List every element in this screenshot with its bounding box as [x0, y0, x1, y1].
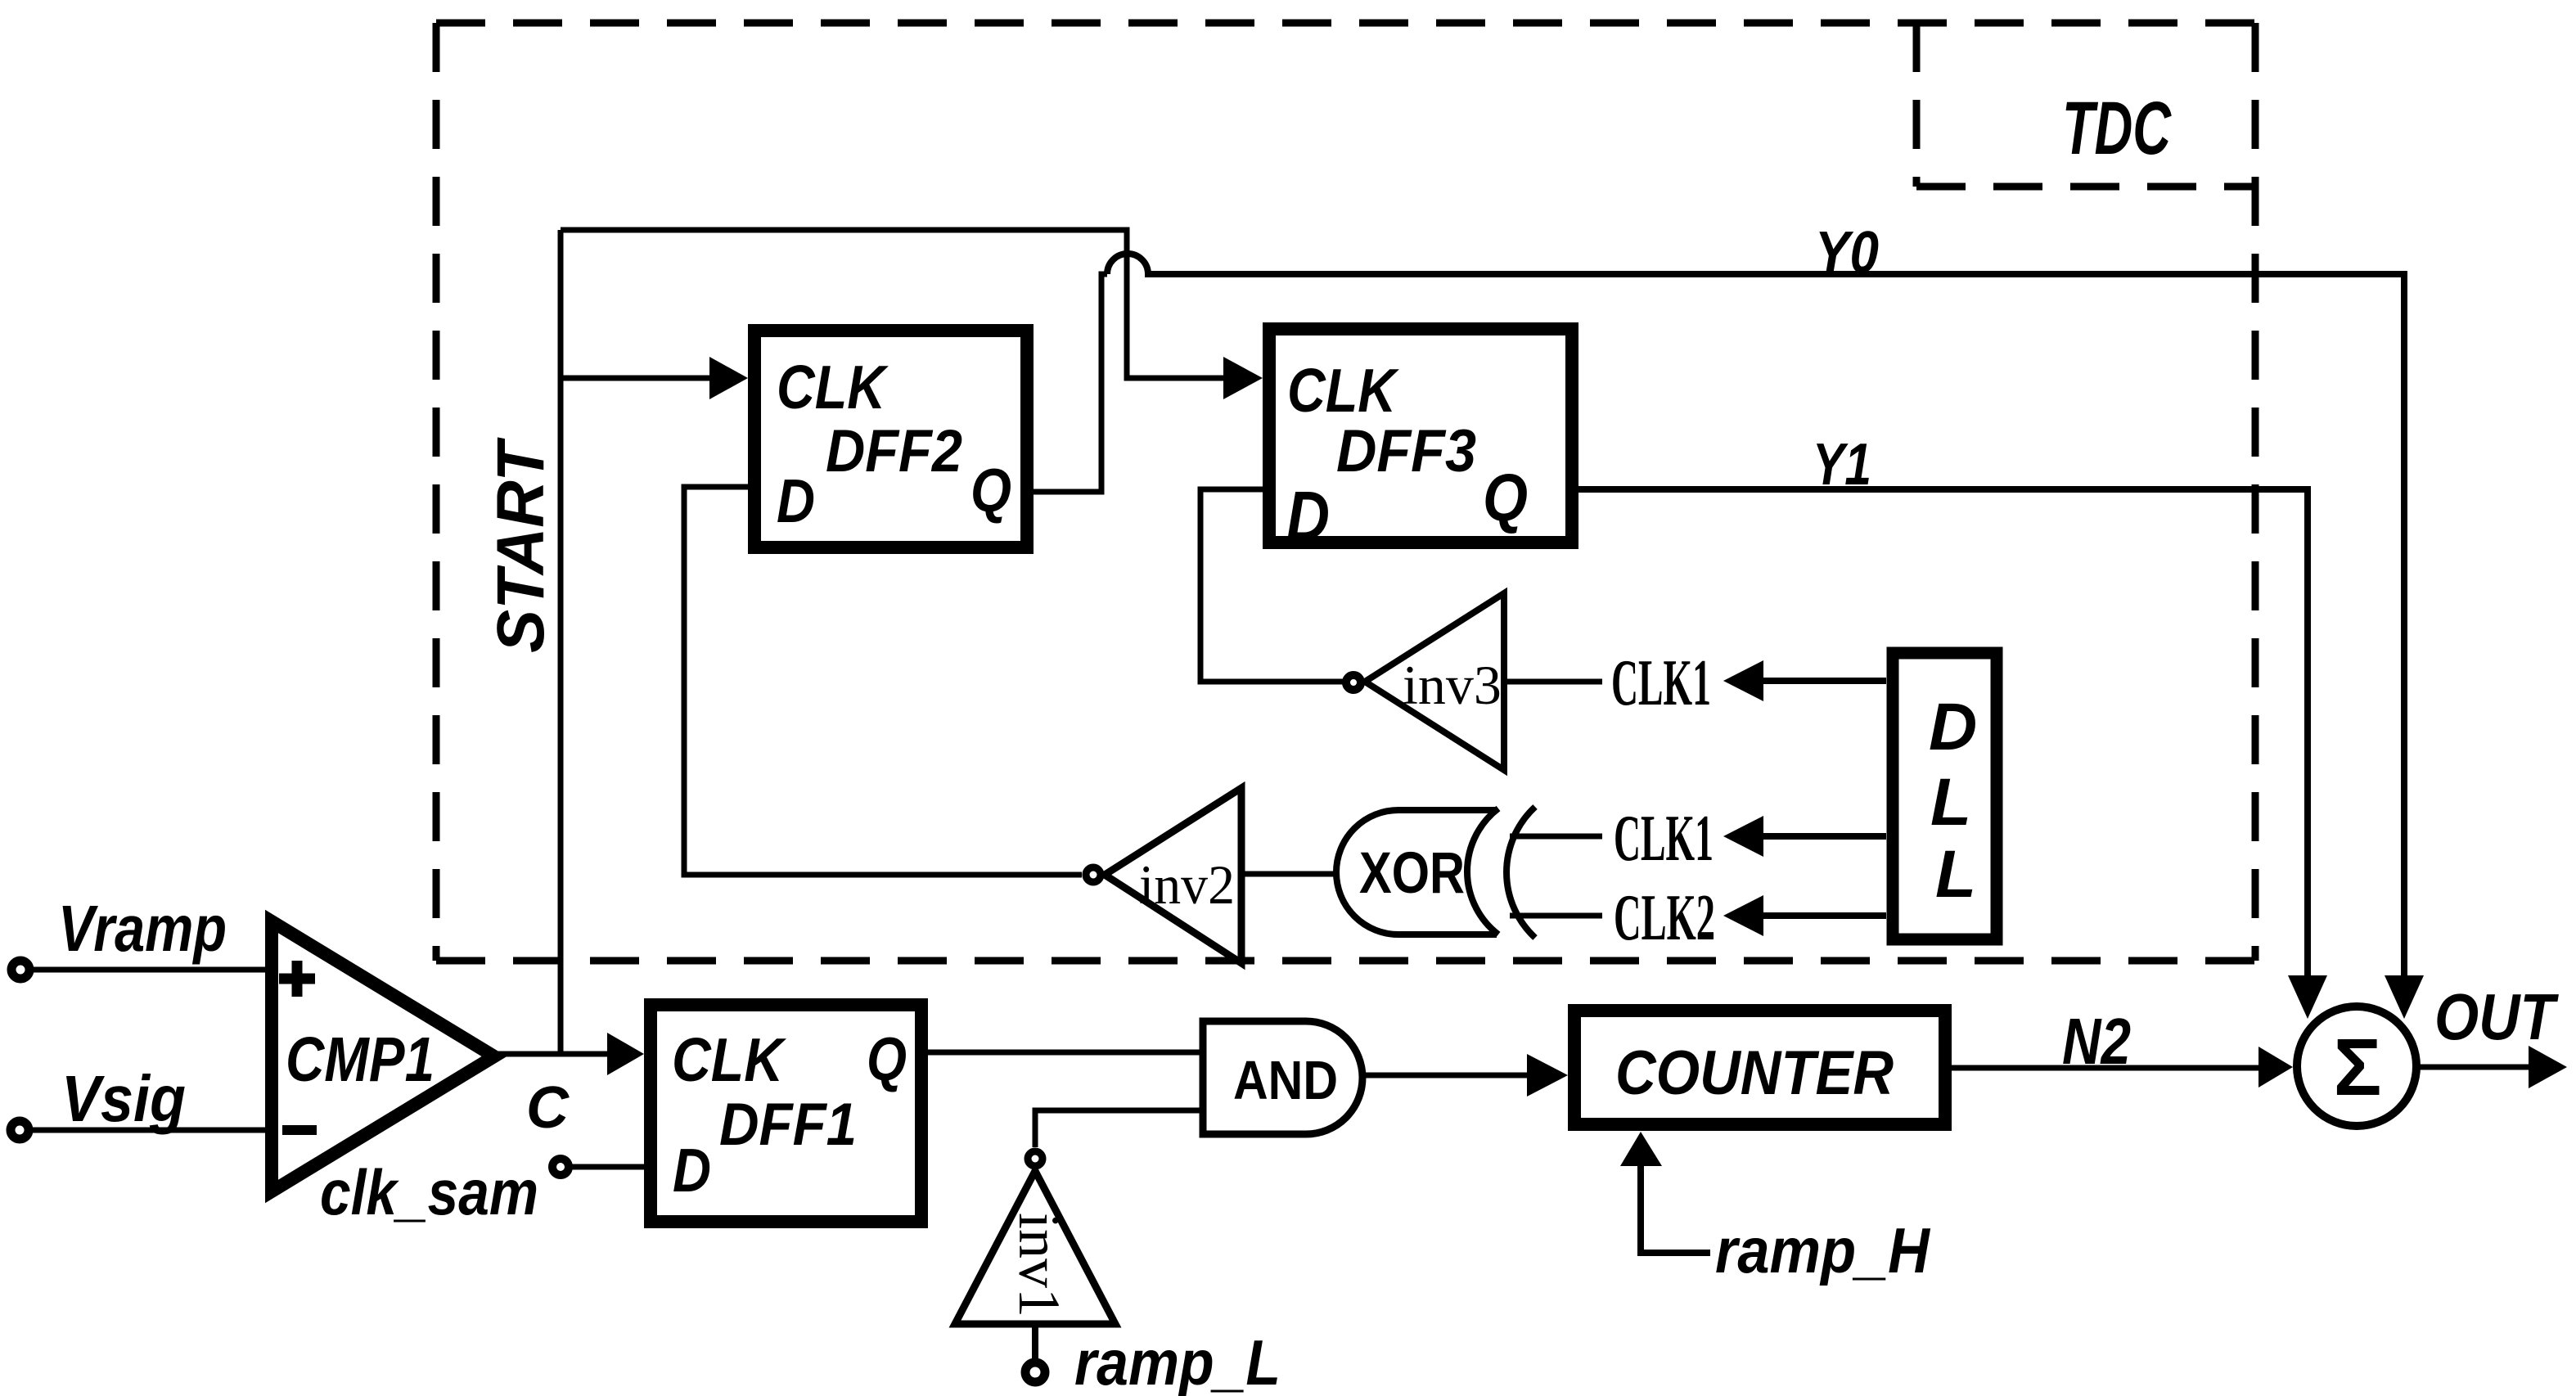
- svg-text:OUT: OUT: [2434, 980, 2559, 1053]
- svg-text:Y1: Y1: [1813, 432, 1871, 498]
- minus input mark: [282, 1125, 317, 1135]
- terminal Vramp: [11, 961, 29, 979]
- wire N2 to sigma: [1952, 1065, 2259, 1071]
- inverter inv3 bubble: [1346, 675, 1361, 690]
- wire DFF3 D input from inv3: [1200, 489, 1344, 682]
- svg-text:TDC: TDC: [2062, 87, 2172, 170]
- inverter inv1: [955, 1171, 1115, 1324]
- arrowhead ramp_H into COUNTER: [1620, 1132, 1662, 1166]
- wire DLL to CLK1 top: [1763, 678, 1886, 684]
- arrowhead OUT: [2529, 1046, 2567, 1088]
- svg-text:clk_sam: clk_sam: [320, 1156, 538, 1228]
- block DLL: [1893, 653, 1997, 939]
- terminal clk_sam: [552, 1159, 569, 1175]
- wire DFF1 Q to AND: [927, 1050, 1200, 1056]
- svg-text:COUNTER: COUNTER: [1615, 1038, 1894, 1108]
- wire START branch to DFF2 clock: [561, 376, 709, 381]
- svg-text:ramp_H: ramp_H: [1715, 1214, 1930, 1286]
- wire DFF3 Q to Y1 and down to sigma: [1578, 489, 2308, 975]
- svg-text:D: D: [777, 466, 815, 535]
- comparator CMP1: [272, 921, 494, 1191]
- svg-text:Vramp: Vramp: [58, 892, 227, 965]
- arrowhead into DFF1 CLK: [607, 1033, 644, 1075]
- svg-text:CLK1: CLK1: [1614, 803, 1714, 875]
- flip-flop DFF3: [1269, 329, 1572, 543]
- dashed boundary box of TDC block: [436, 23, 2255, 961]
- wire AND bottom input from inv1: [1035, 1110, 1203, 1147]
- svg-text:Q: Q: [867, 1024, 907, 1093]
- svg-text:Q: Q: [1483, 461, 1528, 535]
- wire XOR output to inv2: [1241, 871, 1336, 877]
- wire DLL to CLK1 middle: [1763, 833, 1886, 840]
- svg-text:CLK2: CLK2: [1614, 882, 1715, 954]
- wire XOR bottom input: [1510, 913, 1602, 919]
- svg-text:inv1: inv1: [1007, 1213, 1072, 1317]
- svg-text:START: START: [484, 437, 558, 653]
- svg-text:Y0: Y0: [1815, 220, 1879, 286]
- wire inv3 input: [1504, 679, 1602, 685]
- wire inv2 output to DFF2 D: [684, 487, 1082, 875]
- arrowhead N2 into sigma: [2259, 1047, 2293, 1088]
- inverter inv2: [1105, 788, 1241, 963]
- arrowhead into DFF2 CLK: [709, 357, 748, 399]
- svg-text:D: D: [1929, 690, 1977, 764]
- wire top run to DFF3 clock: [561, 230, 1223, 378]
- svg-text:XOR: XOR: [1359, 841, 1465, 906]
- arrowhead CLK1 middle from DLL: [1723, 816, 1763, 857]
- inverter inv1 bubble: [1028, 1151, 1043, 1166]
- block COUNTER: [1574, 1011, 1945, 1124]
- terminal ramp_L: [1025, 1362, 1045, 1382]
- svg-text:D: D: [1286, 478, 1330, 556]
- wire ramp_H: [1641, 1166, 1710, 1253]
- svg-text:C: C: [526, 1075, 570, 1141]
- svg-text:inv2: inv2: [1139, 853, 1235, 916]
- svg-text:ramp_L: ramp_L: [1074, 1326, 1281, 1396]
- gate XOR: [1336, 807, 1535, 938]
- svg-text:CLK: CLK: [1287, 356, 1399, 425]
- svg-text:inv3: inv3: [1403, 654, 1502, 716]
- adder sigma circle: [2297, 1006, 2416, 1126]
- wire AND output: [1362, 1073, 1527, 1079]
- wire inv1 to terminal: [1032, 1324, 1038, 1361]
- svg-text:L: L: [1930, 765, 1971, 840]
- svg-text:N2: N2: [2062, 1005, 2131, 1078]
- plus input mark: [279, 961, 315, 997]
- wire Vramp: [31, 967, 272, 973]
- svg-text:AND: AND: [1233, 1050, 1338, 1111]
- svg-text:DFF3: DFF3: [1336, 418, 1476, 484]
- wire XOR top input: [1510, 834, 1602, 840]
- terminal Vsig: [11, 1121, 29, 1139]
- wire DFF2 Q up to Y0: [1034, 274, 1107, 492]
- svg-text:DFF2: DFF2: [826, 418, 962, 484]
- arrowhead into COUNTER: [1527, 1054, 1568, 1097]
- svg-text:CLK: CLK: [672, 1025, 786, 1094]
- svg-text:CMP1: CMP1: [286, 1024, 435, 1095]
- inverter inv3: [1365, 593, 1504, 770]
- wire Y0 with hop over vertical: [1107, 254, 2404, 975]
- arrowhead into DFF3 CLK: [1223, 357, 1263, 399]
- TDC sub-box dashed: [1916, 23, 2255, 187]
- inverter inv2 bubble: [1086, 867, 1101, 882]
- flip-flop DFF1: [651, 1005, 921, 1222]
- svg-text:DFF1: DFF1: [719, 1092, 857, 1158]
- arrowhead CLK2 from DLL: [1723, 895, 1763, 936]
- wire DLL to CLK2: [1763, 912, 1886, 919]
- svg-text:Vsig: Vsig: [61, 1062, 186, 1135]
- wire START vertical: [558, 230, 564, 1054]
- flip-flop DFF2: [754, 331, 1027, 547]
- svg-text:Q: Q: [971, 456, 1011, 525]
- svg-text:D: D: [673, 1136, 711, 1205]
- gate AND: [1203, 1021, 1362, 1134]
- arrowhead Y1 into sigma: [2288, 975, 2327, 1019]
- wire Vsig: [30, 1128, 272, 1133]
- wire clk_sam to DFF1 D: [571, 1164, 646, 1170]
- wire OUT: [2416, 1065, 2529, 1070]
- svg-text:CLK1: CLK1: [1611, 647, 1711, 719]
- svg-text:L: L: [1935, 837, 1976, 912]
- svg-text:Σ: Σ: [2334, 1022, 2382, 1112]
- arrowhead CLK1 top from DLL: [1723, 660, 1763, 701]
- arrowhead Y0 into sigma: [2385, 975, 2424, 1019]
- svg-text:CLK: CLK: [777, 353, 889, 421]
- wire CMP1 output: [494, 1052, 607, 1057]
